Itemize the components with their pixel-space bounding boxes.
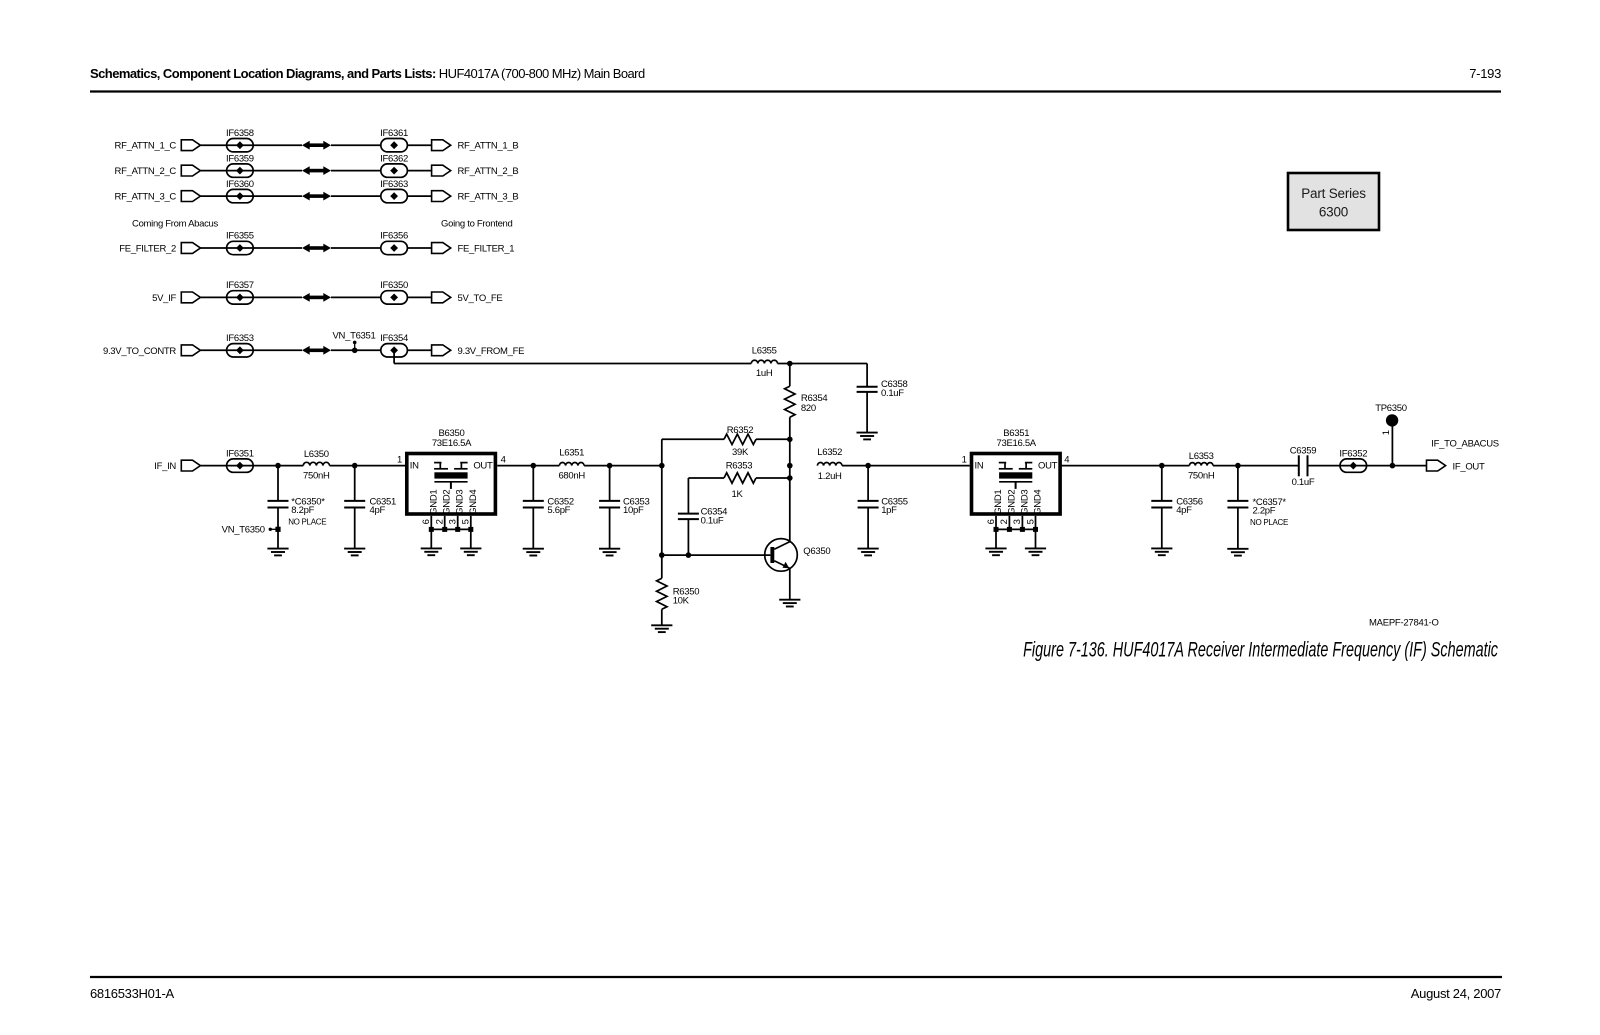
ground [421, 547, 442, 549]
output port IF_OUT [1427, 460, 1485, 472]
resistor R6353 [688, 461, 789, 500]
svg-text:MAEPF-27841-O: MAEPF-27841-O [1369, 618, 1439, 629]
svg-text:IF6350: IF6350 [380, 280, 408, 291]
wire [1308, 465, 1427, 467]
test point TP6350 [1375, 403, 1406, 466]
svg-text:Going to Frontend: Going to Frontend [441, 218, 512, 229]
inductor L6352 [817, 447, 842, 482]
node junction C6357 [1235, 463, 1241, 469]
svg-text:GND4: GND4 [468, 490, 479, 515]
svg-text:IF6353: IF6353 [226, 333, 254, 344]
svg-text:6: 6 [421, 519, 432, 524]
svg-text:FE_FILTER_1: FE_FILTER_1 [458, 244, 515, 255]
capacitor C6352 [523, 466, 574, 549]
svg-text:RF_ATTN_2_C: RF_ATTN_2_C [115, 166, 177, 177]
ferrite bead IF6363 [380, 179, 408, 203]
ground [1151, 547, 1172, 549]
svg-text:3: 3 [1012, 519, 1023, 524]
resistor R6352 [662, 425, 790, 458]
wire [200, 349, 302, 351]
svg-text:1: 1 [1381, 430, 1392, 435]
svg-text:IF6351: IF6351 [226, 448, 254, 459]
node junction TP6350 [1390, 463, 1396, 469]
svg-text:IF6354: IF6354 [380, 333, 408, 344]
svg-text:IF6358: IF6358 [226, 128, 254, 139]
header title [90, 66, 645, 81]
input port FE_FILTER_2 [119, 243, 200, 255]
svg-text:1K: 1K [731, 489, 743, 500]
node junction C6355 [865, 463, 871, 469]
resistor R6354 [785, 364, 828, 542]
wire [407, 349, 431, 351]
svg-text:39K: 39K [732, 447, 749, 458]
wire [407, 296, 431, 298]
ferrite bead IF6360 [226, 179, 254, 203]
svg-text:5: 5 [461, 519, 472, 524]
input port IF_IN [154, 460, 200, 472]
svg-text:August 24, 2007: August 24, 2007 [1411, 986, 1501, 1001]
svg-text:10K: 10K [673, 595, 690, 606]
ground [858, 548, 879, 550]
svg-text:FE_FILTER_2: FE_FILTER_2 [119, 244, 176, 255]
ground [1227, 548, 1248, 550]
ferrite bead IF6353 [226, 333, 254, 357]
svg-text:IF6357: IF6357 [226, 280, 254, 291]
pin 6 (B6351) [986, 516, 997, 530]
inductor L6351 [558, 448, 585, 482]
svg-text:4pF: 4pF [370, 505, 386, 516]
header rule [90, 90, 1501, 92]
svg-text:0.1uF: 0.1uF [881, 388, 904, 399]
output port RF_ATTN_3_B [432, 191, 519, 203]
output port 9.3V_FROM_FE [432, 345, 525, 357]
inductor L6350 [303, 449, 330, 481]
svg-text:IF_TO_ABACUS: IF_TO_ABACUS [1431, 438, 1499, 449]
svg-text:OUT: OUT [1038, 461, 1058, 472]
svg-text:RF_ATTN_2_B: RF_ATTN_2_B [458, 166, 519, 177]
input port RF_ATTN_2_C [115, 165, 201, 177]
node junction C6351 [352, 463, 358, 469]
ferrite bead IF6350 [380, 280, 408, 304]
ferrite bead IF6356 [380, 231, 408, 255]
capacitor C6353 [599, 466, 649, 549]
ferrite bead IF6358 [226, 128, 254, 152]
svg-text:IN: IN [410, 461, 419, 472]
wire [497, 465, 559, 467]
ground [857, 432, 878, 434]
svg-text:RF_ATTN_3_C: RF_ATTN_3_C [115, 192, 177, 203]
inductor L6353 [1188, 451, 1215, 481]
input port 5V_IF [152, 292, 200, 304]
wire [407, 195, 431, 197]
ferrite bead IF6352 [1339, 448, 1367, 472]
svg-text:NO PLACE: NO PLACE [288, 517, 326, 526]
node junction C6353 [607, 463, 613, 469]
wire [331, 247, 381, 249]
svg-text:3: 3 [448, 519, 459, 524]
wire [584, 465, 662, 467]
svg-text:10pF: 10pF [623, 505, 644, 516]
svg-text:Coming From Abacus: Coming From Abacus [132, 218, 218, 229]
svg-text:1: 1 [962, 455, 967, 466]
capacitor C6354 [678, 478, 727, 555]
off-page connection arrow [302, 166, 331, 175]
wire bias node vertical [661, 439, 663, 555]
svg-text:9.3V_TO_CONTR: 9.3V_TO_CONTR [103, 346, 176, 357]
ground [779, 599, 800, 601]
wire [200, 247, 302, 249]
pin 2 (B6351) [999, 516, 1010, 530]
node junction C6352 [531, 463, 537, 469]
svg-text:GND2: GND2 [442, 490, 453, 515]
ground [344, 548, 365, 550]
svg-text:C6359: C6359 [1290, 445, 1317, 456]
wire [331, 195, 381, 197]
wire [407, 144, 431, 146]
node junction C6354/base [686, 552, 692, 558]
inductor L6355 [751, 345, 777, 379]
resistor R6350 [657, 555, 700, 625]
svg-text:IF_OUT: IF_OUT [1453, 461, 1485, 472]
svg-text:Q6350: Q6350 [803, 546, 830, 557]
svg-text:GND1: GND1 [428, 490, 439, 515]
ground [460, 547, 481, 549]
svg-text:5V_IF: 5V_IF [152, 293, 176, 304]
node junction C6350 [275, 463, 281, 469]
wire [200, 195, 302, 197]
off-page connection arrow [302, 141, 331, 150]
node VN_T6350 [222, 525, 281, 536]
svg-text:680nH: 680nH [558, 470, 585, 481]
ground [651, 624, 672, 626]
svg-text:8.2pF: 8.2pF [291, 505, 314, 516]
wire [331, 296, 381, 298]
svg-text:L6352: L6352 [817, 447, 842, 458]
wire [995, 529, 997, 548]
pin 2 (B6350) [435, 516, 446, 530]
svg-text:Schematics, Component Location: Schematics, Component Location Diagrams,… [90, 66, 645, 81]
svg-text:GND3: GND3 [455, 490, 466, 515]
svg-text:7-193: 7-193 [1469, 66, 1501, 81]
capacitor C6350 (no place) [268, 466, 327, 549]
svg-text:Figure 7-136. HUF4017A Receive: Figure 7-136. HUF4017A Receiver Intermed… [1023, 638, 1498, 661]
wire [331, 170, 381, 172]
pin 3 (B6350) [448, 516, 459, 530]
svg-text:L6351: L6351 [559, 448, 584, 459]
Part Series 6300 box [1288, 173, 1379, 230]
svg-text:TP6350: TP6350 [1375, 403, 1406, 414]
svg-text:IF_IN: IF_IN [154, 461, 176, 472]
node junction C6356 [1159, 463, 1165, 469]
bandpass filter block B6350 73E16.5A [407, 428, 496, 515]
wire [331, 349, 381, 351]
svg-text:IF6361: IF6361 [380, 128, 408, 139]
ground [1025, 547, 1046, 549]
wire [407, 170, 431, 172]
svg-text:5: 5 [1025, 519, 1036, 524]
capacitor C6356 [1151, 466, 1202, 549]
wire [200, 144, 302, 146]
svg-text:IF6359: IF6359 [226, 153, 254, 164]
wire [330, 465, 406, 467]
svg-text:R6352: R6352 [727, 425, 754, 436]
capacitor C6358 [857, 364, 908, 433]
ferrite bead IF6361 [380, 128, 408, 152]
bandpass filter block B6351 73E16.5A [972, 428, 1061, 515]
svg-text:L6353: L6353 [1189, 451, 1214, 462]
wire [1213, 465, 1299, 467]
ferrite bead IF6359 [226, 153, 254, 177]
svg-text:750nH: 750nH [1188, 470, 1215, 481]
off-page connection arrow [302, 346, 331, 355]
input port RF_ATTN_3_C [115, 191, 201, 203]
wire 9.3V feed from IF6354 to supply rail [394, 350, 751, 363]
node junction collector line / main line [787, 463, 793, 469]
wire [430, 529, 432, 548]
svg-text:GND4: GND4 [1033, 490, 1044, 515]
output port RF_ATTN_2_B [432, 165, 519, 177]
svg-text:750nH: 750nH [303, 470, 330, 481]
wire [1035, 529, 1037, 548]
svg-text:1pF: 1pF [881, 505, 897, 516]
svg-text:1.2uH: 1.2uH [818, 471, 842, 482]
svg-text:2: 2 [435, 519, 446, 524]
node junction supply [787, 361, 793, 367]
input port 9.3V_TO_CONTR [103, 345, 200, 357]
svg-text:4: 4 [501, 455, 506, 466]
svg-text:GND3: GND3 [1019, 490, 1030, 515]
ferrite bead IF6355 [226, 231, 254, 255]
capacitor C6355 [858, 466, 908, 549]
svg-text:5V_TO_FE: 5V_TO_FE [458, 293, 503, 304]
svg-text:VN_T6351: VN_T6351 [332, 331, 375, 342]
svg-text:IF6355: IF6355 [226, 231, 254, 242]
svg-text:1: 1 [397, 455, 402, 466]
svg-text:0.1uF: 0.1uF [1292, 477, 1315, 488]
node junction base wire [659, 552, 665, 558]
ground [523, 548, 544, 550]
ground bus under B6351 [994, 527, 1039, 532]
svg-text:IF6363: IF6363 [380, 179, 408, 190]
ferrite bead IF6351 [226, 448, 254, 472]
ground [267, 548, 288, 550]
svg-text:RF_ATTN_1_B: RF_ATTN_1_B [458, 141, 519, 152]
wire [842, 465, 970, 467]
svg-text:73E16.5A: 73E16.5A [432, 438, 472, 449]
ground bus under B6350 [429, 527, 474, 532]
ground [985, 547, 1006, 549]
off-page connection arrow [302, 293, 331, 302]
svg-text:6300: 6300 [1319, 205, 1348, 220]
ground [599, 548, 620, 550]
wire [200, 296, 302, 298]
wire [200, 170, 302, 172]
ferrite bead IF6357 [226, 280, 254, 304]
wire base [662, 554, 771, 556]
svg-text:5.6pF: 5.6pF [547, 505, 570, 516]
wire [200, 465, 303, 467]
pin 5 (B6350) [461, 516, 472, 530]
svg-text:IF6362: IF6362 [380, 153, 408, 164]
svg-text:0.1uF: 0.1uF [701, 515, 724, 526]
node A (input side bias node) [659, 463, 665, 469]
svg-text:IN: IN [975, 461, 984, 472]
wire [1061, 465, 1190, 467]
ferrite bead IF6354 [380, 333, 408, 357]
svg-text:2: 2 [999, 519, 1010, 524]
svg-text:1uH: 1uH [756, 368, 773, 379]
output port 5V_TO_FE [432, 292, 503, 304]
svg-text:R6353: R6353 [726, 461, 753, 472]
svg-text:6816533H01-A: 6816533H01-A [90, 986, 174, 1001]
svg-text:2.2pF: 2.2pF [1253, 506, 1276, 517]
off-page connection arrow [302, 244, 331, 253]
svg-text:RF_ATTN_3_B: RF_ATTN_3_B [458, 192, 519, 203]
wire [470, 529, 472, 548]
svg-text:IF6360: IF6360 [226, 179, 254, 190]
pin 6 (B6350) [421, 516, 432, 530]
svg-text:Part Series: Part Series [1301, 186, 1366, 201]
svg-text:9.3V_FROM_FE: 9.3V_FROM_FE [458, 346, 525, 357]
capacitor C6357 (no place) [1227, 466, 1288, 549]
svg-text:L6355: L6355 [752, 345, 777, 356]
svg-text:IF6352: IF6352 [1339, 448, 1367, 459]
output port FE_FILTER_1 [432, 243, 515, 255]
svg-text:GND1: GND1 [993, 490, 1004, 515]
ferrite bead IF6362 [380, 153, 408, 177]
pin 5 (B6351) [1025, 516, 1036, 530]
svg-text:OUT: OUT [473, 461, 493, 472]
svg-text:GND2: GND2 [1006, 490, 1017, 515]
wire [407, 247, 431, 249]
svg-text:4pF: 4pF [1176, 505, 1192, 516]
input port RF_ATTN_1_C [115, 140, 201, 152]
off-page connection arrow [302, 192, 331, 201]
svg-text:6: 6 [986, 519, 997, 524]
svg-text:IF6356: IF6356 [380, 231, 408, 242]
svg-text:VN_T6350: VN_T6350 [222, 525, 265, 536]
node junction R6353/collector [787, 475, 793, 481]
node VN_T6351 [332, 331, 375, 354]
pin 3 (B6351) [1012, 516, 1023, 530]
svg-text:L6350: L6350 [304, 449, 329, 460]
svg-text:4: 4 [1064, 455, 1069, 466]
wire [331, 144, 381, 146]
footer rule [90, 976, 1502, 978]
svg-text:73E16.5A: 73E16.5A [997, 438, 1037, 449]
output port RF_ATTN_1_B [432, 140, 519, 152]
capacitor C6351 [344, 466, 396, 549]
transistor Q6350 [765, 539, 831, 572]
svg-text:RF_ATTN_1_C: RF_ATTN_1_C [115, 141, 177, 152]
wire emitter to ground [789, 568, 791, 599]
wire [778, 363, 868, 365]
capacitor C6359 (series) [1290, 445, 1317, 488]
svg-text:820: 820 [801, 403, 816, 414]
svg-text:NO PLACE: NO PLACE [1250, 518, 1288, 527]
node junction R6352/collector [787, 437, 793, 443]
